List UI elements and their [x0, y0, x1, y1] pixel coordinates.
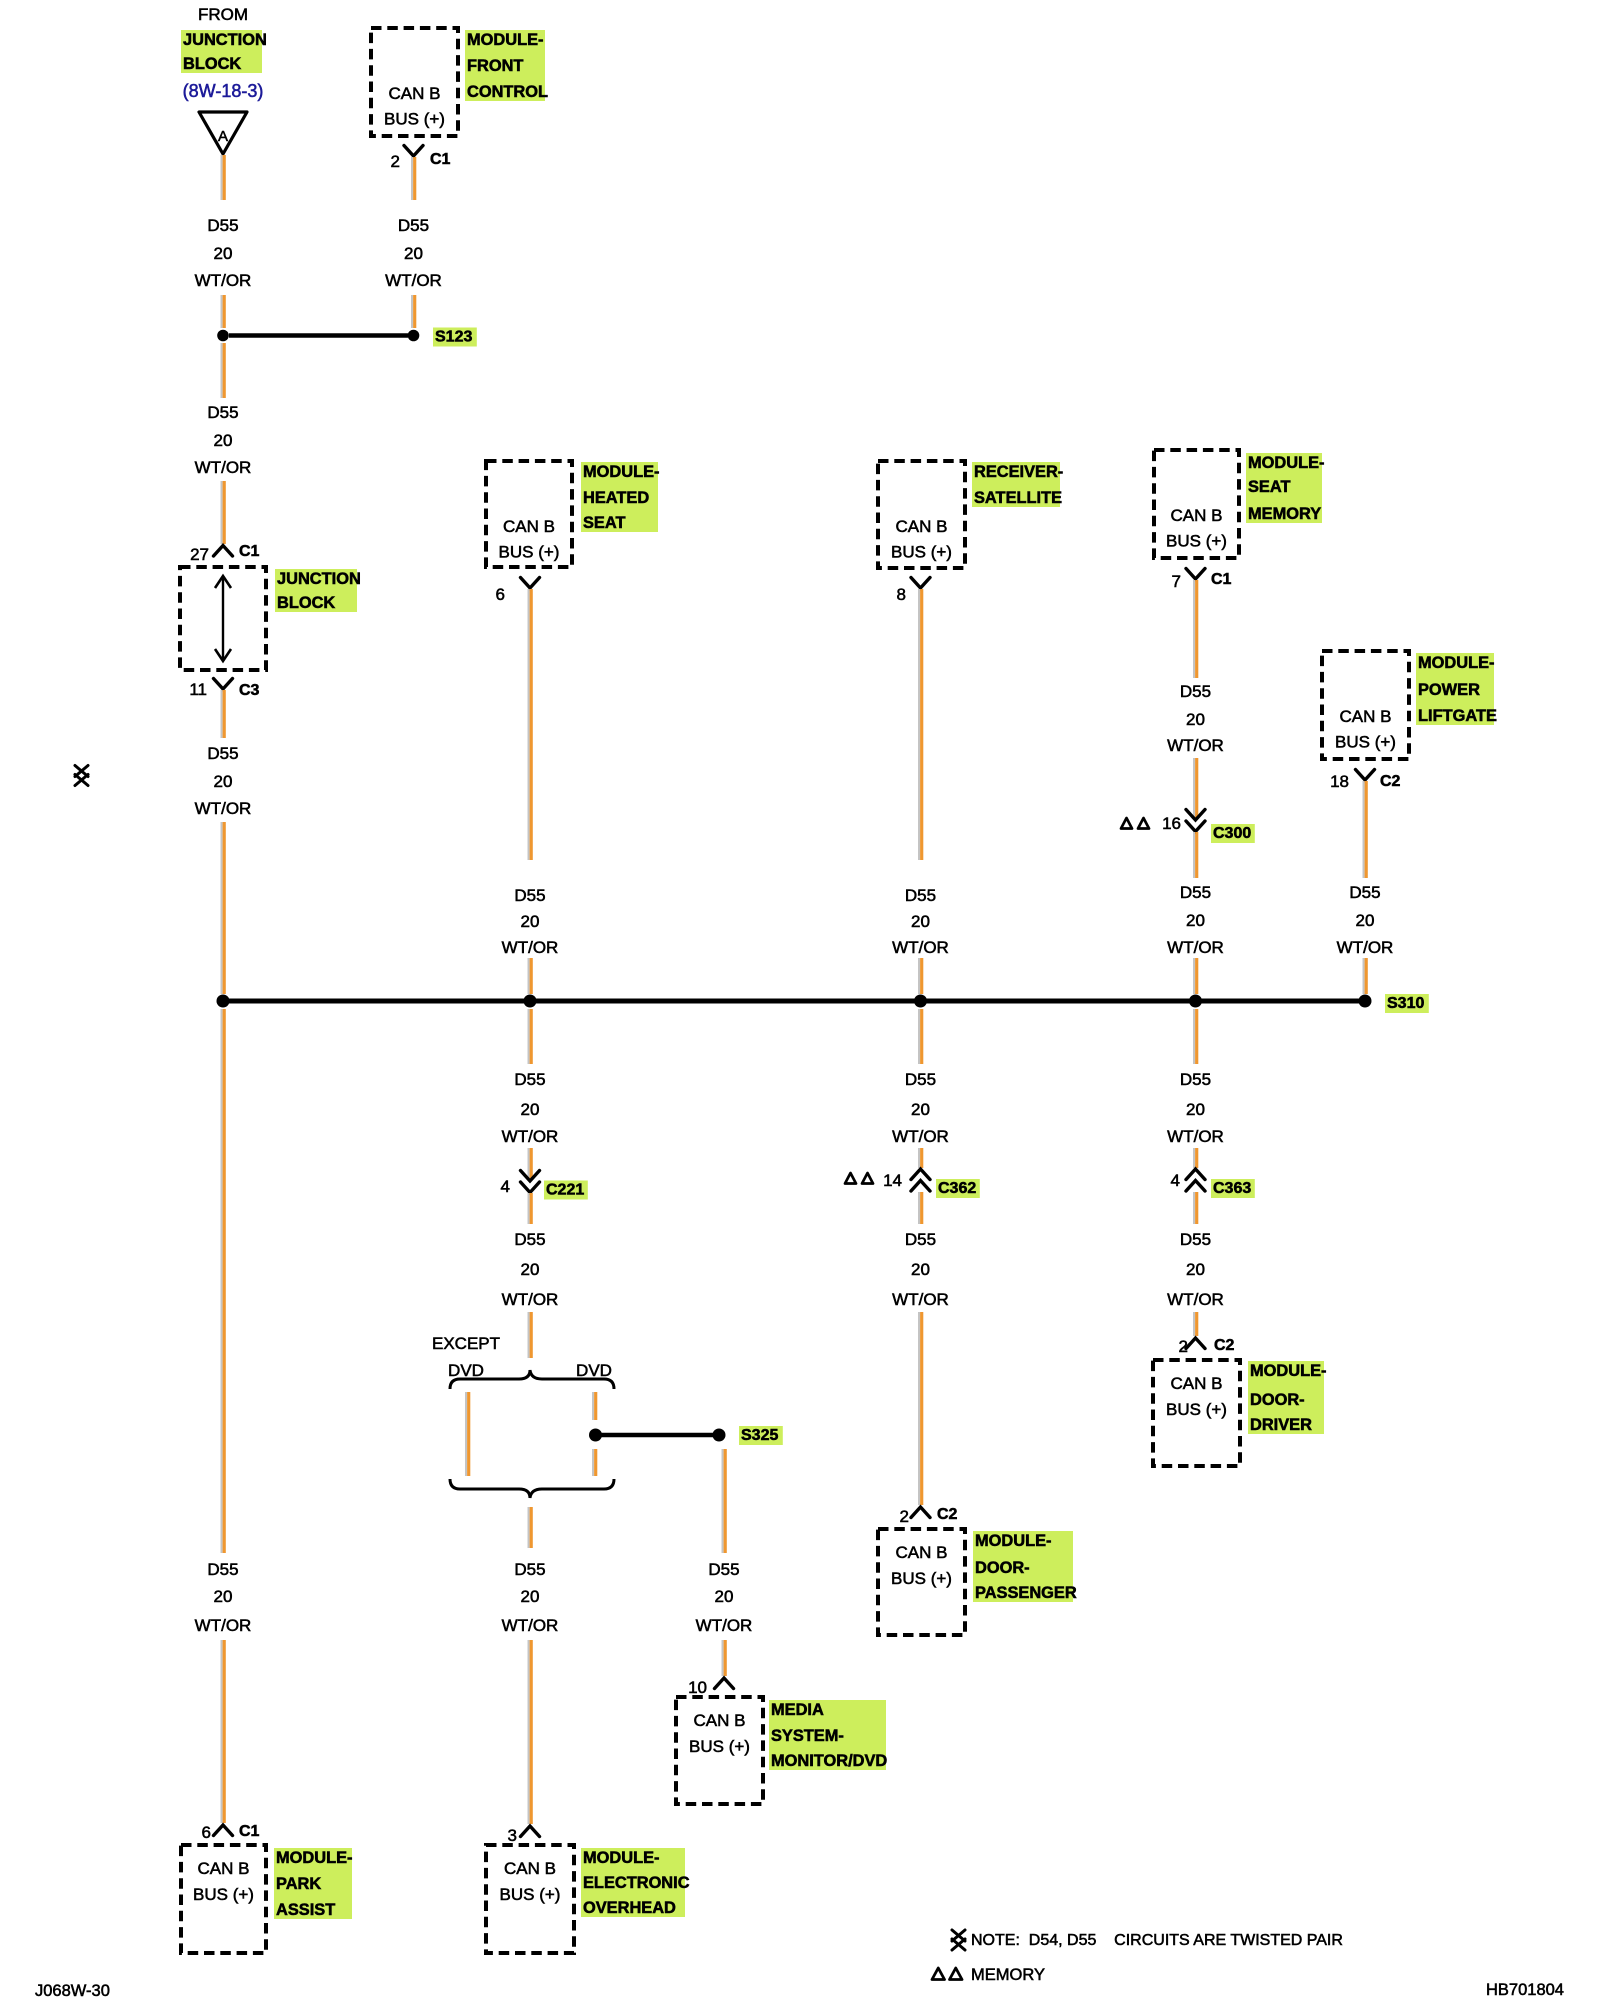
svg-text:WT/OR: WT/OR [892, 1127, 949, 1146]
svg-text:16: 16 [1162, 814, 1181, 833]
svg-text:WT/OR: WT/OR [195, 271, 252, 290]
svg-text:C1: C1 [239, 543, 260, 560]
svg-text:20: 20 [521, 1260, 540, 1279]
svg-text:ELECTRONIC: ELECTRONIC [583, 1874, 690, 1892]
svg-text:BUS (+): BUS (+) [193, 1885, 254, 1904]
svg-text:2: 2 [900, 1507, 909, 1526]
svg-text:RECEIVER-: RECEIVER- [974, 463, 1063, 481]
svg-text:WT/OR: WT/OR [502, 1616, 559, 1635]
svg-text:DVD: DVD [576, 1361, 612, 1380]
svg-text:18: 18 [1330, 772, 1349, 791]
svg-text:JUNCTION: JUNCTION [277, 570, 361, 588]
svg-text:C300: C300 [1213, 825, 1251, 842]
svg-text:20: 20 [521, 1587, 540, 1606]
svg-text:4: 4 [501, 1177, 510, 1196]
svg-text:C3: C3 [239, 682, 260, 699]
svg-text:WT/OR: WT/OR [892, 938, 949, 957]
svg-text:MONITOR/DVD: MONITOR/DVD [771, 1752, 887, 1770]
svg-text:CAN B: CAN B [198, 1859, 250, 1878]
svg-text:S325: S325 [741, 1427, 778, 1444]
svg-text:D55: D55 [207, 744, 238, 763]
svg-text:10: 10 [688, 1678, 707, 1697]
svg-text:D55: D55 [514, 886, 545, 905]
svg-text:D55: D55 [207, 1560, 238, 1579]
svg-text:D55: D55 [905, 1230, 936, 1249]
svg-text:BUS (+): BUS (+) [1335, 733, 1396, 752]
svg-text:WT/OR: WT/OR [1167, 938, 1224, 957]
svg-text:POWER: POWER [1418, 681, 1480, 699]
svg-text:20: 20 [404, 244, 423, 263]
svg-text:MEMORY: MEMORY [1248, 505, 1321, 523]
svg-text:HEATED: HEATED [583, 489, 649, 507]
svg-text:CAN B: CAN B [389, 84, 441, 103]
svg-text:20: 20 [214, 772, 233, 791]
svg-text:JUNCTION: JUNCTION [183, 31, 267, 49]
svg-text:4: 4 [1171, 1171, 1180, 1190]
svg-text:MODULE-: MODULE- [583, 463, 659, 481]
svg-text:C2: C2 [1380, 773, 1401, 790]
svg-text:MODULE-: MODULE- [1418, 654, 1494, 672]
svg-text:SATELLITE: SATELLITE [974, 489, 1062, 507]
svg-text:20: 20 [1186, 1260, 1205, 1279]
svg-text:SEAT: SEAT [583, 514, 626, 532]
svg-text:D55: D55 [708, 1560, 739, 1579]
svg-text:CONTROL: CONTROL [467, 83, 548, 101]
svg-text:D55: D55 [398, 216, 429, 235]
svg-text:WT/OR: WT/OR [696, 1616, 753, 1635]
svg-text:D55: D55 [1349, 883, 1380, 902]
svg-text:C1: C1 [239, 1823, 260, 1840]
svg-text:20: 20 [715, 1587, 734, 1606]
svg-text:DOOR-: DOOR- [1250, 1391, 1305, 1409]
svg-text:C362: C362 [938, 1180, 976, 1197]
svg-text:MODULE-: MODULE- [583, 1849, 659, 1867]
svg-text:BUS (+): BUS (+) [1166, 1400, 1227, 1419]
svg-text:A: A [218, 128, 228, 145]
svg-text:WT/OR: WT/OR [502, 938, 559, 957]
svg-text:20: 20 [214, 1587, 233, 1606]
svg-text:WT/OR: WT/OR [1167, 736, 1224, 755]
svg-text:MODULE-: MODULE- [467, 31, 543, 49]
svg-text:20: 20 [1356, 911, 1375, 930]
svg-text:S123: S123 [435, 329, 472, 346]
svg-text:DOOR-: DOOR- [975, 1559, 1030, 1577]
svg-text:FROM: FROM [198, 5, 248, 24]
svg-text:C2: C2 [937, 1506, 958, 1523]
svg-text:WT/OR: WT/OR [892, 1290, 949, 1309]
svg-text:WT/OR: WT/OR [1167, 1127, 1224, 1146]
svg-text:20: 20 [1186, 1100, 1205, 1119]
svg-text:MEMORY: MEMORY [971, 1966, 1045, 1984]
svg-text:D55: D55 [1180, 883, 1211, 902]
svg-text:27: 27 [190, 545, 209, 564]
svg-text:CAN B: CAN B [1171, 506, 1223, 525]
svg-text:20: 20 [521, 1100, 540, 1119]
svg-text:FRONT: FRONT [467, 57, 523, 75]
svg-text:6: 6 [202, 1823, 211, 1842]
svg-text:S310: S310 [1387, 995, 1424, 1012]
svg-text:MODULE-: MODULE- [276, 1849, 352, 1867]
svg-text:HB701804: HB701804 [1486, 1981, 1564, 1999]
svg-text:MODULE-: MODULE- [1248, 454, 1324, 472]
svg-text:WT/OR: WT/OR [502, 1290, 559, 1309]
svg-text:WT/OR: WT/OR [1167, 1290, 1224, 1309]
svg-text:WT/OR: WT/OR [195, 458, 252, 477]
svg-text:C2: C2 [1214, 1337, 1235, 1354]
svg-text:OVERHEAD: OVERHEAD [583, 1899, 676, 1917]
svg-text:7: 7 [1172, 572, 1181, 591]
svg-text:WT/OR: WT/OR [502, 1127, 559, 1146]
svg-text:WT/OR: WT/OR [1337, 938, 1394, 957]
svg-text:PARK: PARK [276, 1875, 321, 1893]
svg-text:CAN B: CAN B [1340, 707, 1392, 726]
svg-text:BUS (+): BUS (+) [499, 543, 560, 562]
svg-text:BUS (+): BUS (+) [384, 110, 445, 129]
svg-text:6: 6 [496, 585, 505, 604]
svg-text:BUS (+): BUS (+) [891, 543, 952, 562]
svg-text:BUS (+): BUS (+) [689, 1737, 750, 1756]
svg-text:C1: C1 [1211, 571, 1232, 588]
svg-text:CAN B: CAN B [503, 517, 555, 536]
svg-text:D55: D55 [1180, 682, 1211, 701]
svg-text:BUS (+): BUS (+) [500, 1885, 561, 1904]
svg-text:EXCEPT: EXCEPT [432, 1334, 500, 1353]
svg-text:C1: C1 [430, 151, 451, 168]
svg-text:2: 2 [391, 152, 400, 171]
svg-text:20: 20 [214, 431, 233, 450]
svg-text:CAN B: CAN B [896, 1543, 948, 1562]
svg-text:DVD: DVD [448, 1361, 484, 1380]
svg-text:CAN B: CAN B [694, 1711, 746, 1730]
svg-text:ASSIST: ASSIST [276, 1901, 335, 1919]
svg-text:20: 20 [911, 1100, 930, 1119]
svg-text:WT/OR: WT/OR [195, 799, 252, 818]
svg-text:CAN B: CAN B [504, 1859, 556, 1878]
svg-text:CAN B: CAN B [1171, 1374, 1223, 1393]
svg-text:WT/OR: WT/OR [195, 1616, 252, 1635]
svg-text:J068W-30: J068W-30 [35, 1982, 110, 2000]
svg-text:SYSTEM-: SYSTEM- [771, 1727, 844, 1745]
svg-text:D55: D55 [905, 886, 936, 905]
svg-text:D55: D55 [905, 1070, 936, 1089]
svg-text:BUS (+): BUS (+) [1166, 532, 1227, 551]
svg-text:C221: C221 [546, 1182, 584, 1199]
svg-text:PASSENGER: PASSENGER [975, 1584, 1077, 1602]
svg-text:BLOCK: BLOCK [277, 594, 335, 612]
svg-text:8: 8 [897, 585, 906, 604]
svg-text:D55: D55 [207, 216, 238, 235]
svg-text:D55: D55 [514, 1070, 545, 1089]
svg-text:NOTE: D54, D55 CIRCUITS AR: NOTE: D54, D55 CIRCUITS ARE TWISTED PAIR [971, 1932, 1343, 1949]
svg-text:MODULE-: MODULE- [975, 1532, 1051, 1550]
svg-text:20: 20 [521, 912, 540, 931]
svg-text:MODULE-: MODULE- [1250, 1362, 1326, 1380]
svg-text:DRIVER: DRIVER [1250, 1416, 1312, 1434]
svg-text:WT/OR: WT/OR [385, 271, 442, 290]
svg-text:D55: D55 [207, 403, 238, 422]
svg-text:2: 2 [1179, 1337, 1188, 1356]
svg-text:11: 11 [189, 680, 207, 699]
svg-text:20: 20 [1186, 911, 1205, 930]
svg-text:BLOCK: BLOCK [183, 55, 241, 73]
svg-text:(8W-18-3): (8W-18-3) [183, 81, 264, 101]
svg-text:D55: D55 [514, 1560, 545, 1579]
svg-text:D55: D55 [1180, 1230, 1211, 1249]
svg-text:20: 20 [911, 1260, 930, 1279]
svg-text:BUS (+): BUS (+) [891, 1569, 952, 1588]
svg-text:20: 20 [911, 912, 930, 931]
svg-text:C363: C363 [1213, 1180, 1251, 1197]
svg-text:20: 20 [214, 244, 233, 263]
svg-text:LIFTGATE: LIFTGATE [1418, 707, 1497, 725]
svg-text:MEDIA: MEDIA [771, 1701, 824, 1719]
svg-text:CAN B: CAN B [896, 517, 948, 536]
svg-text:20: 20 [1186, 710, 1205, 729]
svg-text:D55: D55 [514, 1230, 545, 1249]
svg-text:D55: D55 [1180, 1070, 1211, 1089]
svg-text:SEAT: SEAT [1248, 478, 1291, 496]
svg-text:3: 3 [508, 1826, 517, 1845]
svg-text:14: 14 [883, 1171, 902, 1190]
